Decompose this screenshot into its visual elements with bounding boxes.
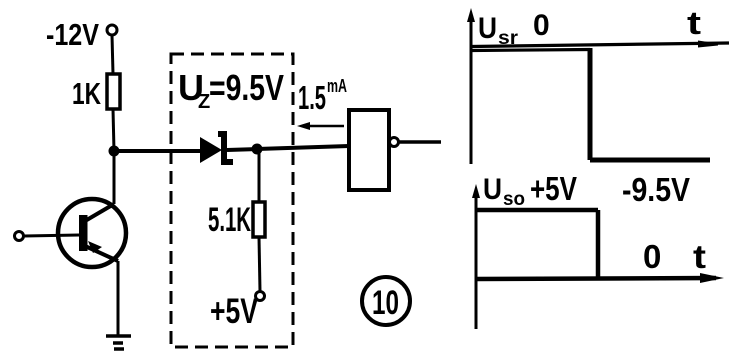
Usr high level	[471, 50, 590, 51]
Uso step	[596, 210, 601, 278]
svg-text:1.5: 1.5	[298, 79, 326, 116]
t axis bottom	[476, 273, 724, 283]
node A junction	[109, 146, 120, 157]
svg-text:U: U	[483, 173, 502, 206]
svg-text:U: U	[478, 12, 497, 45]
svg-text:+5V: +5V	[530, 170, 577, 207]
dashed box	[171, 54, 293, 347]
Uso vertical axis	[472, 184, 480, 329]
svg-text:5.1K: 5.1K	[208, 201, 251, 239]
gate U1	[349, 110, 399, 190]
terminal -12V	[107, 25, 117, 35]
resistor R1 1K	[107, 74, 120, 109]
svg-text:1K: 1K	[72, 76, 101, 111]
transistor Q1	[58, 199, 126, 267]
label Usr	[478, 12, 519, 49]
label 1.5 mA	[298, 76, 347, 116]
wire	[227, 149, 257, 150]
wire main	[114, 149, 200, 153]
Usr low level	[590, 158, 710, 163]
svg-text:so: so	[503, 189, 525, 210]
diode D1 zener	[200, 131, 233, 165]
wire emitter to ground	[117, 261, 120, 336]
svg-text:=9.5V: =9.5V	[209, 67, 284, 108]
svg-text:-9.5V: -9.5V	[622, 171, 690, 208]
t axis top	[471, 41, 729, 48]
wire collector	[113, 151, 116, 204]
svg-text:10: 10	[372, 284, 399, 322]
input terminal	[15, 232, 24, 241]
svg-text:t: t	[693, 238, 706, 275]
svg-text:t: t	[687, 5, 701, 41]
terminal +5V	[256, 292, 265, 301]
Usr step	[588, 48, 593, 160]
wire	[113, 109, 114, 151]
svg-text:+5V: +5V	[210, 292, 258, 331]
wire	[112, 35, 113, 74]
svg-text:0: 0	[643, 238, 661, 275]
svg-text:mA: mA	[327, 76, 347, 96]
wire down from node B	[258, 149, 261, 202]
Usr vertical axis	[467, 8, 475, 164]
label Uso	[483, 173, 525, 210]
svg-text:0: 0	[533, 9, 550, 42]
figure number 10	[362, 277, 410, 325]
resistor R2 5.1K	[253, 202, 265, 237]
label Uz=9.5V	[178, 67, 284, 113]
wire base	[24, 235, 79, 236]
svg-text:-12V: -12V	[46, 17, 99, 52]
wire output	[399, 140, 441, 144]
ground	[106, 336, 131, 349]
node B junction	[252, 144, 263, 155]
current arrow	[297, 122, 344, 130]
wire	[259, 237, 260, 291]
Uso high level	[476, 208, 598, 213]
wire	[257, 146, 349, 149]
